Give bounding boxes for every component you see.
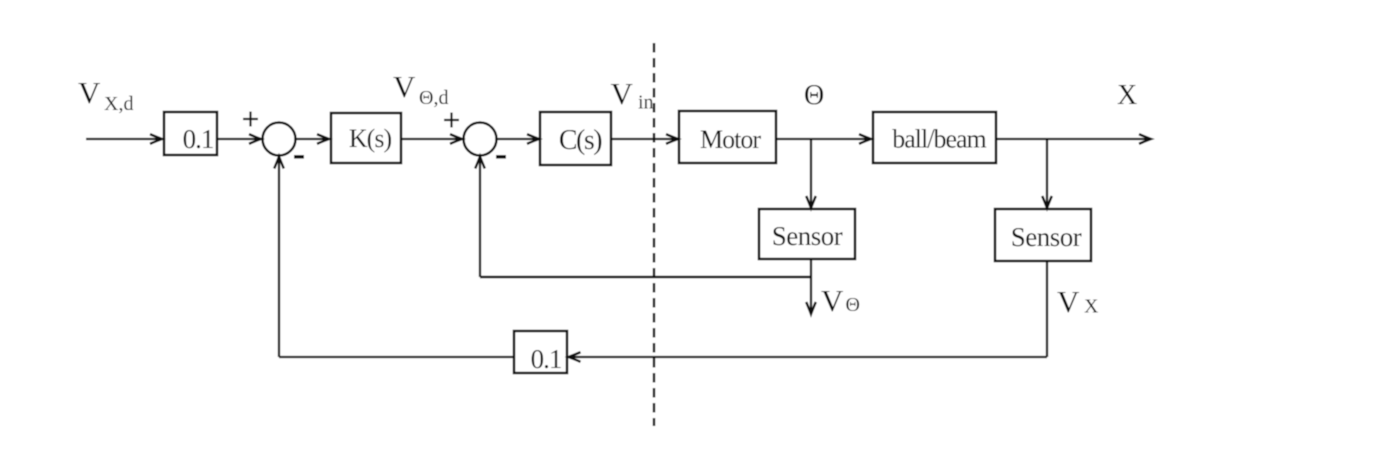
node V_X label xyxy=(1057,284,1099,319)
svg-text:X,d: X,d xyxy=(104,93,133,115)
block 0.1 (input scaling) xyxy=(164,112,217,155)
svg-text:V: V xyxy=(393,69,416,104)
wire output arrow from ball/beam xyxy=(996,134,1151,144)
block ball/beam xyxy=(873,112,996,163)
node V_Theta label xyxy=(821,283,860,318)
plus sign at S1 xyxy=(243,112,258,127)
wire Motor to ball/beam xyxy=(776,134,871,144)
block K(s) controller xyxy=(331,113,401,163)
wire feedback up into S1 with arrow xyxy=(274,157,284,358)
wire bottom feedback rail left segment xyxy=(279,356,514,358)
svg-text:V: V xyxy=(78,75,101,110)
svg-text:Θ: Θ xyxy=(804,80,824,111)
svg-text:V: V xyxy=(1057,284,1080,319)
wire feedback from Sensor 1 to S2 (horizontal) xyxy=(480,276,811,279)
svg-text:Sensor: Sensor xyxy=(772,221,843,251)
wire feedback up into S2 with arrow xyxy=(475,157,485,278)
block Sensor 2 (position sensor) xyxy=(995,209,1091,261)
svg-text:0.1: 0.1 xyxy=(183,124,214,154)
dashed separator line xyxy=(653,43,655,426)
wire C(s) to Motor xyxy=(611,134,678,144)
node V_in label xyxy=(611,76,654,114)
svg-text:in: in xyxy=(638,92,654,114)
block Sensor 1 (angle sensor) xyxy=(759,209,855,259)
svg-text:X: X xyxy=(1084,296,1099,318)
plus sign at S2 xyxy=(444,113,459,128)
block 0.1 (feedback scaling) xyxy=(514,331,567,374)
minus sign at S2 xyxy=(496,155,506,159)
svg-text:Θ: Θ xyxy=(846,294,860,316)
wire junction drop from X node down into Sensor 2 xyxy=(1042,139,1052,208)
wire Sensor 1 output down with arrow (V_Theta tap) xyxy=(806,259,816,314)
wire S2 to C(s) xyxy=(497,134,540,144)
wire K(s) to summing junction S2 xyxy=(401,134,462,144)
node V_X,d label xyxy=(78,75,133,115)
svg-text:X: X xyxy=(1117,80,1137,111)
block Motor xyxy=(679,111,776,163)
wire junction drop from Theta node down into Sensor 1 xyxy=(806,139,816,208)
summing junction S1 xyxy=(263,123,296,156)
summing junction S2 xyxy=(464,123,497,156)
svg-text:Sensor: Sensor xyxy=(1011,222,1082,252)
svg-text:Θ,d: Θ,d xyxy=(419,87,448,109)
wire S1 to K(s) xyxy=(296,134,330,144)
wire bottom feedback rail right segment into 0.1 block xyxy=(569,352,1048,362)
svg-text:0.1: 0.1 xyxy=(531,344,562,374)
wire Sensor 2 output down to bottom feedback rail xyxy=(1046,261,1048,357)
svg-text:K(s): K(s) xyxy=(349,124,392,153)
node V_Theta,d label xyxy=(393,69,448,109)
svg-text:V: V xyxy=(611,76,634,111)
svg-text:C(s): C(s) xyxy=(559,125,602,156)
block C(s) compensator xyxy=(540,112,611,165)
svg-text:ball/beam: ball/beam xyxy=(892,125,986,154)
svg-text:Motor: Motor xyxy=(700,125,761,154)
wire 0.1 to summing junction S1 xyxy=(217,134,261,144)
minus sign at S1 xyxy=(294,155,304,159)
svg-text:V: V xyxy=(821,283,844,318)
wire input arrow into first 0.1 block xyxy=(86,134,162,144)
